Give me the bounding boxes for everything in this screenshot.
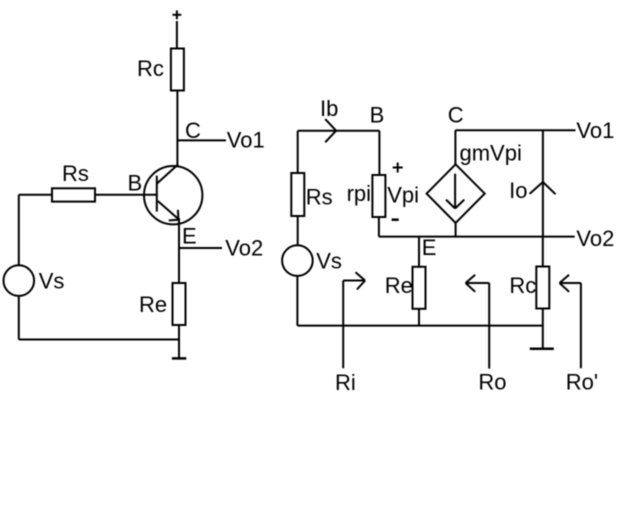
wire	[378, 131, 380, 175]
svg-text:Ro: Ro	[478, 369, 506, 394]
current arrow Io	[530, 182, 556, 194]
source Vs (right)	[282, 245, 313, 276]
svg-text:C: C	[185, 118, 201, 143]
svg-text:Vs: Vs	[39, 269, 65, 294]
wire	[418, 237, 420, 267]
svg-text:Ib: Ib	[320, 96, 338, 121]
resistor Rs (right)	[291, 173, 304, 216]
wire	[542, 237, 544, 267]
measurement arrow Ro	[466, 275, 490, 369]
svg-text:Rc: Rc	[137, 56, 164, 81]
svg-text:Re: Re	[139, 292, 167, 317]
wire	[297, 131, 299, 173]
wire	[18, 297, 20, 340]
svg-text:Ri: Ri	[335, 370, 356, 395]
svg-text:E: E	[182, 223, 197, 248]
wire	[455, 129, 575, 131]
resistor Rc (left)	[171, 49, 184, 91]
wire	[379, 236, 575, 238]
source Vs (left)	[3, 265, 34, 296]
svg-text:Rs: Rs	[62, 161, 89, 186]
svg-text:Vo1: Vo1	[576, 118, 614, 143]
wire	[455, 223, 457, 237]
wire	[297, 325, 542, 327]
wire	[454, 130, 456, 164]
wire	[178, 218, 180, 283]
svg-text:Vo2: Vo2	[576, 226, 614, 251]
ground (left)	[172, 357, 186, 360]
wire	[176, 91, 178, 166]
wire	[178, 325, 180, 358]
wire	[378, 217, 380, 237]
wire	[18, 195, 20, 265]
svg-text:C: C	[448, 103, 464, 128]
power + terminal	[173, 10, 182, 19]
measurement arrow Ri	[343, 272, 365, 368]
dependent source gmVpi	[427, 164, 485, 223]
svg-text:E: E	[422, 235, 437, 260]
ground (right)	[530, 348, 554, 351]
polarity + for Vpi	[393, 163, 403, 173]
wire	[296, 277, 298, 326]
svg-text:Rs: Rs	[306, 185, 333, 210]
svg-text:gmVpi: gmVpi	[460, 140, 522, 165]
wire	[95, 194, 157, 196]
transistor Q1	[144, 165, 202, 225]
svg-text:Vo2: Vo2	[225, 236, 263, 261]
wire	[176, 21, 178, 49]
wire	[297, 216, 299, 245]
svg-text:Io: Io	[509, 178, 527, 203]
resistor Rs (left)	[52, 188, 95, 201]
svg-text:B: B	[128, 171, 143, 196]
svg-text:B: B	[370, 103, 385, 128]
measurement arrow Ro'	[560, 275, 581, 368]
resistor Re (right)	[413, 267, 426, 309]
current arrow Ib	[325, 119, 336, 142]
svg-text:Vs: Vs	[316, 249, 342, 274]
resistor Rc (right)	[536, 267, 549, 309]
svg-text:Ro': Ro'	[566, 369, 598, 394]
wire	[19, 339, 179, 341]
svg-text:Rc: Rc	[509, 273, 536, 298]
wire	[298, 130, 380, 132]
svg-text:rpi: rpi	[347, 181, 371, 206]
polarity - for Vpi	[392, 218, 399, 221]
wire	[19, 194, 52, 196]
svg-text:Re: Re	[385, 273, 413, 298]
resistor Re (left)	[173, 283, 186, 325]
svg-text:Vo1: Vo1	[227, 127, 265, 152]
resistor rpi	[372, 175, 385, 217]
wire	[418, 309, 420, 326]
wire	[542, 130, 544, 236]
svg-text:Vpi: Vpi	[387, 183, 419, 208]
wire	[542, 309, 544, 349]
wire	[177, 139, 226, 141]
wire	[179, 247, 222, 249]
